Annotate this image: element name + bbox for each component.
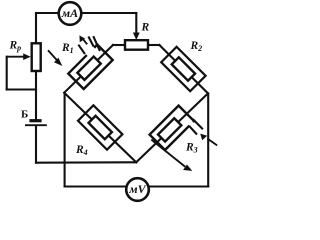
wire mV left horizontal [65, 185, 127, 187]
R3 slider arrow (long, out through S corner) [151, 140, 192, 171]
wire arm R3 [136, 93, 208, 162]
wire R right stub [148, 44, 159, 46]
resistor R1 [68, 45, 112, 89]
R3 tick marks [189, 119, 203, 134]
resistor R2 [161, 47, 205, 91]
rheostat Rp [32, 43, 41, 71]
battery B plates [29, 119, 41, 122]
svg-text:мА: мА [61, 6, 78, 20]
wire arm R4 [64, 93, 136, 163]
wire bottom horizontal battery to node B [36, 161, 136, 163]
wire arm R2 [159, 45, 208, 93]
R3 slider arrow (into E corner) [200, 134, 217, 146]
millivoltmeter mV [126, 178, 149, 201]
R1 slider arrow (out) [79, 35, 87, 44]
wire node A drop vertical [64, 93, 66, 187]
svg-text:R: R [141, 22, 150, 34]
resistor R (top) [125, 40, 148, 50]
wire down to R arrow [135, 13, 137, 33]
R1 tick marks [78, 36, 100, 54]
svg-text:Б: Б [21, 109, 28, 121]
wire arm R1 [64, 45, 113, 93]
R1 slider arrow (into) [48, 50, 62, 66]
resistor R4 [78, 105, 122, 149]
wire left vertical upper [35, 13, 37, 43]
wire battery bottom down [35, 126, 37, 163]
milliammeter mA [59, 2, 82, 25]
wire Rp slider loop vertical [6, 57, 8, 90]
svg-text:мV: мV [128, 182, 146, 196]
Rp slider arrow [7, 56, 24, 58]
wire mA right to bend [82, 12, 137, 14]
wire Rp bottom to battery [35, 71, 37, 120]
wire right vertical [207, 94, 209, 187]
wire mV right horizontal [149, 185, 209, 187]
wire top-left horizontal to mA [36, 12, 59, 14]
arrow onto R [133, 33, 140, 41]
wire R left stub [113, 44, 125, 46]
wire Rp slider loop horizontal [7, 88, 36, 90]
resistor R3 [150, 106, 194, 150]
